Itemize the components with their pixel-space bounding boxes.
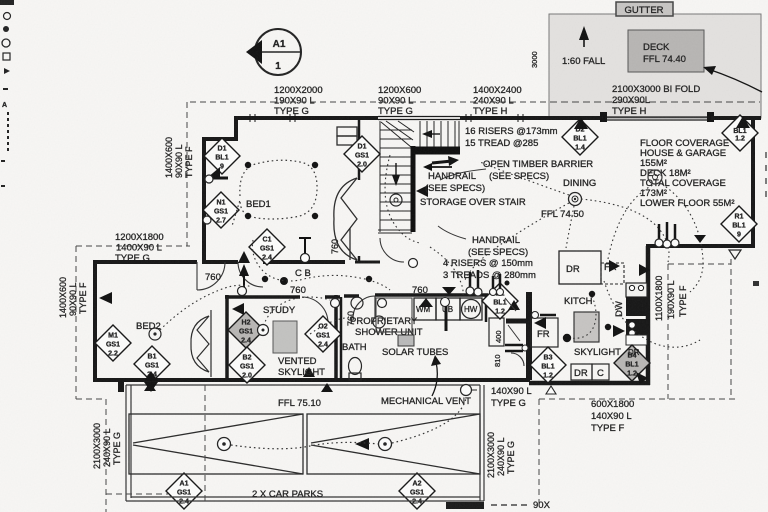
wardrobe wall right of bed1 xyxy=(358,120,361,180)
wall deck bottom right segment xyxy=(711,116,761,120)
laundry WM box xyxy=(414,298,482,320)
wall kitchen right xyxy=(646,246,651,385)
wall bed1 left xyxy=(202,137,206,264)
wall house bottom kitchen xyxy=(529,381,650,386)
wall bath top left stub xyxy=(344,294,359,298)
title bubble A1 xyxy=(246,29,301,75)
kitchen top arrows xyxy=(609,260,620,272)
diamond tag B3 BL1 1.2 xyxy=(530,347,566,383)
stairs dotted arc xyxy=(385,155,420,243)
kitchen appliance tower xyxy=(626,283,647,345)
kitchen dots xyxy=(589,291,595,297)
wall study right xyxy=(334,295,338,381)
carpark top tick triangles xyxy=(144,382,156,391)
corridor dots xyxy=(262,276,268,282)
wall bath left lower xyxy=(340,297,343,381)
kitchen FR cabinet dashed xyxy=(601,263,624,284)
svg-text:DR: DR xyxy=(628,348,640,357)
dining wiring big sweep left xyxy=(465,203,569,280)
open timber barrier leader xyxy=(440,169,486,180)
deck pointer arrow xyxy=(708,69,762,92)
wall bed1 bottom right of door xyxy=(263,260,345,264)
diamond tag B4 BL1 1.2 xyxy=(614,345,650,381)
top dimension text column 3 xyxy=(473,85,522,117)
wall laundry top xyxy=(375,293,488,297)
diamond tag D2 BL1 1.4 xyxy=(562,119,598,155)
carpark light 2 xyxy=(379,438,392,451)
dashed dimension boundary top xyxy=(190,101,549,103)
kitchen DR cabinet xyxy=(559,251,601,284)
diamond tag H2 GS1 2.4 xyxy=(228,312,264,348)
junction dot xyxy=(505,281,510,286)
pendant lights laundry xyxy=(493,274,500,290)
stairs xyxy=(378,121,459,233)
wall laundry right stub xyxy=(485,295,488,322)
study arrow xyxy=(232,303,244,315)
dining light xyxy=(569,193,582,206)
wall house bottom xyxy=(93,378,530,382)
diamond tag B1 BL1 1.2 xyxy=(482,283,518,319)
vertical dim text kitchen right xyxy=(654,276,688,321)
wall bed2 study divider xyxy=(225,295,229,381)
diamond tag C1 GS1 2.4 xyxy=(249,229,285,265)
scan blob right xyxy=(753,281,759,286)
wall bed2 left xyxy=(93,260,97,381)
carpark dashed boundary xyxy=(204,385,206,503)
open timber barrier note xyxy=(483,159,593,182)
bed2 wardrobe doors xyxy=(191,310,211,377)
proprietary shower note xyxy=(350,316,423,338)
wall garage top xyxy=(646,244,755,248)
wall study top xyxy=(225,295,300,299)
pole light bed1 xyxy=(299,238,311,263)
wall corridor top right xyxy=(355,261,380,264)
stair down arrow xyxy=(392,163,400,186)
handrail note upper xyxy=(425,171,485,194)
carpark bay 2 xyxy=(307,414,480,474)
diamond tag N1 GS1 2.7 xyxy=(203,192,239,228)
dashed segment right top xyxy=(668,263,731,265)
wall house top xyxy=(236,116,378,120)
pendant lights dining xyxy=(466,270,482,296)
pendant circles laundry xyxy=(490,289,497,296)
mech vent leader arrow xyxy=(432,362,437,396)
study desk xyxy=(273,321,297,353)
kitchen bottom DR C boxes xyxy=(571,364,609,380)
garage wiring xyxy=(604,281,700,347)
dim text 600X1800 xyxy=(591,399,634,434)
stair risers note xyxy=(465,126,558,149)
laundry down arrow xyxy=(419,287,456,331)
kitchen door arc xyxy=(511,353,524,366)
bed1 door arrow xyxy=(238,251,250,263)
bed2 bottom triangles xyxy=(144,371,158,381)
vented skylight label xyxy=(278,356,325,378)
top dimension text column 1 xyxy=(274,85,323,117)
solar tube circle 1 xyxy=(373,316,385,328)
bottom black bar xyxy=(446,502,484,509)
garage down triangle xyxy=(694,235,706,243)
wall bed1 top-left step xyxy=(204,116,236,139)
diamond tag B2 GS1 2.0 xyxy=(229,347,265,383)
handrail arrow bar xyxy=(432,156,459,166)
door bed1 south xyxy=(238,262,263,287)
vertical dim text bottom-right xyxy=(486,432,516,478)
bath 400 box xyxy=(489,318,504,346)
deck triangle left xyxy=(574,117,588,129)
door swing lines near 400 xyxy=(508,325,520,341)
pendant triple garage xyxy=(655,222,679,248)
stair storage wall L xyxy=(411,146,460,232)
door corridor east xyxy=(380,238,404,262)
bed1 wiring dots xyxy=(245,162,251,168)
bed1 wiring loop xyxy=(232,160,317,226)
study wiring xyxy=(262,297,330,330)
dim text 1200X1800 block xyxy=(115,232,164,264)
diamond tag M1 GS1 2.2 xyxy=(95,325,131,361)
stair left arrow top flight xyxy=(422,130,440,138)
floor coverage note xyxy=(640,138,735,209)
dim text 140X90 L xyxy=(491,386,532,409)
deck fall arrow xyxy=(562,26,605,67)
bed1 wall lamp xyxy=(203,167,228,224)
bifold post right xyxy=(707,112,714,122)
right edge scan dashes xyxy=(765,152,767,197)
wall bed1 bottom xyxy=(202,260,238,264)
wall kitchen left thick xyxy=(526,292,532,380)
deck label box xyxy=(628,30,704,72)
carpark outer walls xyxy=(126,385,484,501)
study light xyxy=(258,325,269,336)
left edge scan artifacts xyxy=(0,0,14,187)
bath toilet xyxy=(349,358,362,381)
dashed boundary right of kitchen xyxy=(667,264,669,399)
wall deck bottom left segment xyxy=(549,116,604,120)
bifold door thin line xyxy=(604,116,711,118)
kitchen wiring xyxy=(570,296,596,338)
garage light circle xyxy=(648,170,662,184)
kitchen wall double bars xyxy=(505,344,523,347)
laundry wall circles xyxy=(238,287,247,296)
corridor up arrow xyxy=(239,264,249,290)
kitchen corner arrow xyxy=(636,372,648,384)
wall bed2 top xyxy=(93,260,197,264)
risers note lower xyxy=(443,258,536,281)
vertical dim text bottom-left xyxy=(92,423,122,469)
diamond tag B1 GS1 2.4 xyxy=(134,346,170,382)
wall house right xyxy=(751,116,755,248)
stair winder diagonals xyxy=(381,122,411,147)
shower mch box xyxy=(398,335,414,346)
solar tube circle 2 xyxy=(351,297,363,309)
door bed2 north xyxy=(197,262,225,290)
handrail arrow left xyxy=(416,185,428,197)
deck area xyxy=(549,14,761,118)
wall kitchen left stub xyxy=(506,319,532,324)
bifold post left xyxy=(600,112,607,122)
diamond tag A2 GS1 2.4 xyxy=(399,473,435,509)
deck dashed line xyxy=(550,101,760,103)
diamond tag O2 GS1 2.4 xyxy=(305,316,341,352)
mech vent circle stem xyxy=(461,385,478,396)
wardrobe doors bed1 xyxy=(334,127,357,260)
kitchen island xyxy=(574,312,599,342)
deck triangle right xyxy=(736,116,750,128)
handrail note lower xyxy=(468,235,528,258)
carpark dotted wiring xyxy=(231,442,378,448)
bed2 arrow xyxy=(99,292,112,304)
shower unit outline xyxy=(376,298,412,332)
kitchen FR left box xyxy=(531,318,558,347)
bed2 wiring xyxy=(160,285,252,330)
diamond tag D1 BL1 9 xyxy=(204,138,240,174)
carpark bay 1 xyxy=(129,414,303,474)
gutter box xyxy=(616,2,673,16)
post below bed2 wall xyxy=(118,382,124,392)
door study xyxy=(302,297,328,323)
carpark light 1 xyxy=(218,438,231,451)
diamond tag A1 GS1 2.4 xyxy=(166,473,202,509)
diamond tag R1 BL1 9 xyxy=(721,206,757,242)
vertical dim text left xyxy=(58,277,88,318)
dining to stairs wiring xyxy=(480,162,569,195)
white triangle below kitchen wall xyxy=(546,386,556,394)
door bath xyxy=(353,296,375,318)
dining light drop wiring xyxy=(566,206,574,248)
kitchen wall circle bar xyxy=(532,312,539,319)
dining wiring to garage xyxy=(581,199,669,262)
bed1 top wall window ticks xyxy=(250,114,523,122)
hall to laundry wiring xyxy=(430,247,463,295)
kitchen right arrow low xyxy=(613,325,625,337)
kitchen wall up triangle xyxy=(508,300,520,310)
carpark arrow xyxy=(355,438,369,450)
diamond tag D1 GS1 2.0 xyxy=(344,136,380,172)
wall study top right segment xyxy=(325,295,340,299)
kitchen left wall arrow xyxy=(534,317,546,329)
vertical dim text top-left xyxy=(164,137,194,178)
top dimension text column 2 xyxy=(378,85,421,117)
diamond tag BL1 1.2 1.2 xyxy=(722,115,758,151)
corridor wiring xyxy=(252,240,300,281)
smoke detector circle stairs xyxy=(390,194,402,206)
garage wiring upper loop xyxy=(608,184,655,259)
bifold label xyxy=(612,84,700,117)
handrail leader lower xyxy=(438,226,466,239)
garage white triangle xyxy=(729,250,741,259)
study skylight triangle xyxy=(303,367,315,377)
bed2 light xyxy=(149,328,161,340)
handrail second leader xyxy=(423,163,452,171)
